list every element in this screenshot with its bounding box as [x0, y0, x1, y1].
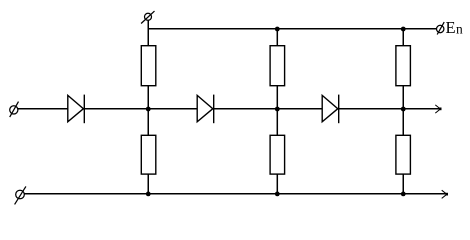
- wire column 3 top: [402, 29, 404, 46]
- junction node column 3 top: [401, 27, 406, 32]
- resistor R6: [396, 135, 411, 174]
- wire bottom bus: [24, 193, 446, 195]
- wire column 1 top: [147, 20, 149, 45]
- diode V2: [197, 95, 214, 124]
- label En: [446, 18, 464, 37]
- wire column 2 middle: [276, 86, 278, 136]
- resistor R1: [141, 46, 156, 86]
- wire top rail: [148, 28, 436, 30]
- wire column 3 bottom: [402, 174, 404, 194]
- terminal bottom left input: [15, 186, 26, 204]
- junction node column 1 middle: [146, 107, 151, 112]
- terminal top input: [141, 11, 154, 23]
- diode V3: [322, 95, 339, 124]
- wire column 1 middle: [147, 86, 149, 136]
- junction node column 2 bottom: [275, 192, 280, 197]
- wire column 3 middle: [402, 86, 404, 136]
- svg-text:n: n: [456, 22, 463, 37]
- junction node column 3 bottom: [401, 192, 406, 197]
- resistor R5: [396, 46, 411, 86]
- diode V1: [68, 95, 85, 124]
- resistor R3: [270, 46, 285, 86]
- wire column 2 top: [276, 29, 278, 46]
- wire middle bus: [18, 108, 441, 110]
- terminal En: [437, 22, 445, 34]
- junction node column 1 bottom: [146, 192, 151, 197]
- arrow middle output: [435, 105, 441, 113]
- junction node column 3 middle: [401, 107, 406, 112]
- arrow bottom output: [442, 190, 448, 198]
- svg-text:E: E: [446, 18, 456, 37]
- resistor R4: [270, 135, 285, 174]
- junction node column 2 middle: [275, 107, 280, 112]
- wire column 2 bottom: [276, 174, 278, 194]
- wire column 1 bottom: [147, 174, 149, 194]
- terminal left middle input: [10, 102, 19, 118]
- junction node column 2 top: [275, 27, 280, 32]
- resistor R2: [141, 135, 156, 174]
